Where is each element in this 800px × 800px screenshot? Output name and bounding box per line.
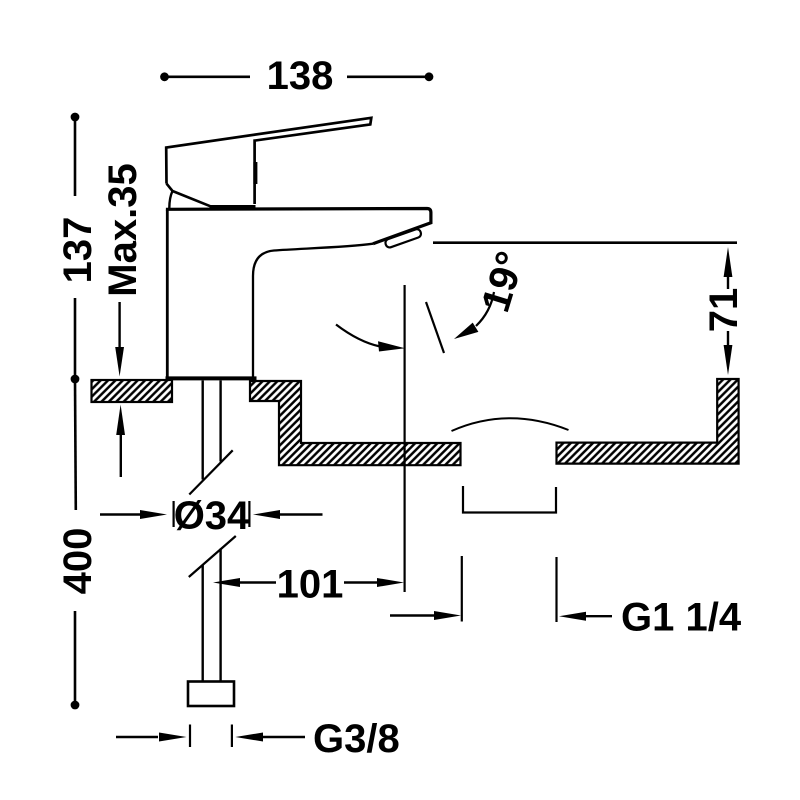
faucet body left edge	[166, 210, 169, 378]
faucet spout underside	[253, 244, 373, 377]
flow arc arrow	[336, 325, 405, 352]
svg-text:101: 101	[277, 563, 344, 607]
svg-text:G1 1/4: G1 1/4	[621, 596, 742, 640]
svg-text:400: 400	[56, 528, 100, 595]
break line lower	[189, 536, 236, 577]
supply nut	[188, 682, 234, 707]
stream angle line	[426, 302, 444, 353]
faucet base	[166, 376, 257, 380]
dimension Max.35	[101, 163, 145, 477]
break line upper	[189, 450, 232, 494]
countertop left slab	[92, 380, 173, 402]
svg-text:Ø34: Ø34	[174, 494, 250, 538]
drain cup	[463, 486, 556, 513]
dimension G3/8	[116, 717, 400, 761]
svg-text:19°: 19°	[474, 246, 534, 317]
shank left line	[201, 381, 203, 683]
aerator	[384, 228, 422, 248]
faucet body top edge and spout end	[166, 209, 431, 244]
dimension 138	[160, 54, 433, 98]
svg-text:71: 71	[702, 288, 746, 333]
svg-text:Max.35: Max.35	[101, 163, 145, 296]
spout height reference line	[433, 241, 737, 244]
angle arc arrow 19	[454, 292, 494, 339]
faucet handle outline	[166, 118, 371, 204]
stream centerline	[404, 285, 406, 592]
handle bottom thick bar	[210, 205, 256, 209]
basin left stepped section	[250, 381, 461, 465]
svg-text:G3/8: G3/8	[313, 717, 400, 761]
dimension 137	[56, 113, 100, 384]
handle skirt curve	[169, 191, 172, 208]
basin right section and wall	[557, 379, 739, 464]
dimension 101	[213, 563, 404, 607]
handle lower diagonal	[167, 184, 211, 207]
drain hump arc	[452, 418, 569, 431]
dimension 400	[56, 380, 100, 709]
dimension O34	[100, 494, 323, 538]
dimension G1 1/4	[390, 556, 742, 640]
shank right line	[219, 381, 221, 683]
dimension 71	[702, 247, 746, 375]
svg-text:137: 137	[56, 217, 100, 284]
handle right edge thick mark	[253, 162, 257, 184]
svg-text:138: 138	[267, 54, 334, 98]
